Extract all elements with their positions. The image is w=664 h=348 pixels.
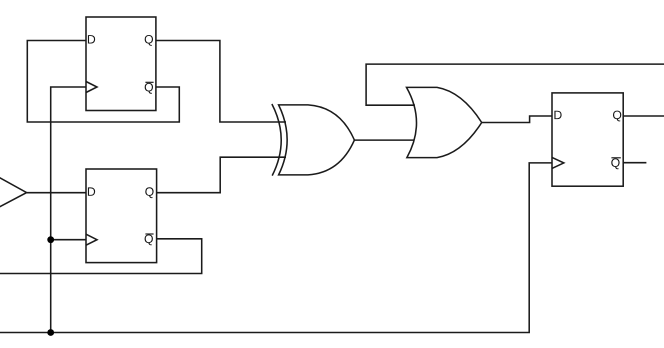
overline for Qbar U2 [145,233,153,235]
label D pin U2 [88,187,95,195]
label Q pin U2 [145,187,153,198]
flip-flop U3 clock triangle [552,157,564,168]
wire: Qbar1 to D1 feedback [27,41,179,123]
overline for Qbar U3 [611,157,620,159]
OR gate U5 body [407,87,482,157]
flip-flop U2 body [86,169,157,263]
wire: XOR output to OR bottom input [354,139,414,141]
overline for Qbar U1 [145,81,153,83]
flip-flop U1 clock triangle [86,82,97,93]
wire: buffer output to D2 [27,192,86,194]
flip-flop U1 body [86,17,156,111]
junction dot: clock trunk on bottom rail [47,329,54,336]
label Qbar pin U1 [145,83,153,94]
wire: bottom clock rail to FF3 clk [0,163,552,333]
label D pin U3 [554,111,561,119]
wire: clock vertical trunk [51,87,86,333]
label Qbar pin U2 [145,234,153,245]
flip-flop U2 clock triangle [86,234,97,245]
buffer gate (clipped at left edge) [0,175,27,210]
wire: clock branch to FF2 clk [51,239,86,241]
wire: top rail to OR top input [366,64,664,105]
wire: Qbar2 rail to left edge [0,239,202,274]
junction dot: clock branch at FF2 [47,236,54,243]
label Qbar pin U3 [611,158,619,169]
wire: Q2 to XOR bottom input [157,157,286,193]
XOR gate U4 lead arc [272,104,281,176]
label D pin U1 [88,35,95,43]
wire: Q1 to XOR top input [156,41,286,123]
label Q pin U3 [613,111,621,122]
wire: Q3 output [623,115,664,117]
label Q pin U1 [145,35,153,46]
wire: Qbar3 output stub [623,162,646,164]
wire: OR output to D3 [482,116,552,123]
flip-flop U3 body [552,93,623,186]
XOR gate U4 body [279,105,355,175]
